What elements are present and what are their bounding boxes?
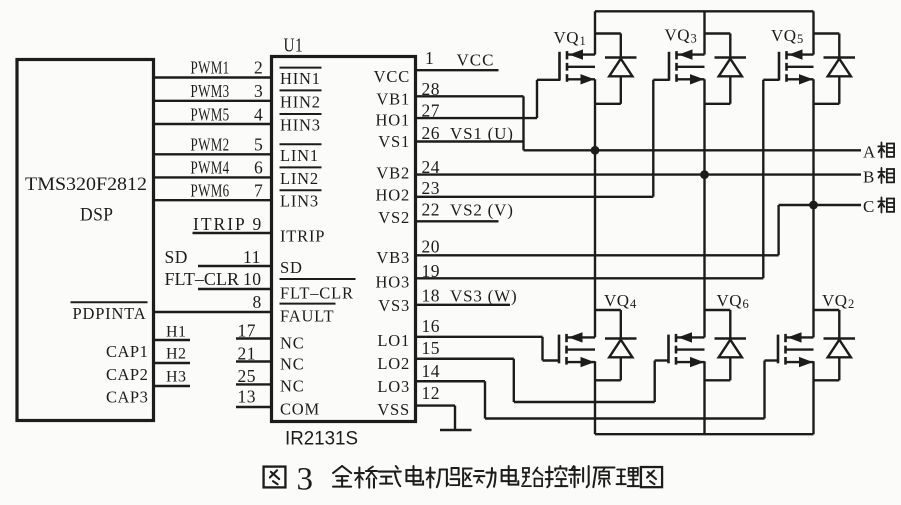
- U1 inside label LIN2: [280, 167, 322, 188]
- wire phase C line: [814, 204, 862, 206]
- svg-text:U1: U1: [284, 35, 304, 57]
- svg-text:SD: SD: [280, 258, 303, 277]
- ground: [440, 429, 472, 432]
- svg-text:25: 25: [238, 366, 257, 386]
- wire pin 10 FLT-CLR: [165, 269, 273, 289]
- label U1: [284, 35, 304, 57]
- wire column C lower source to rail: [812, 361, 814, 434]
- wire pin 21 (H2 to NC): [236, 344, 272, 364]
- svg-text:3: 3: [297, 462, 314, 498]
- transistor VQ5 (high side): [779, 49, 814, 84]
- svg-text:VS2 (V): VS2 (V): [450, 201, 514, 220]
- U1 inside label NC: [280, 377, 305, 396]
- svg-text:10: 10: [243, 269, 262, 289]
- svg-text:VSS: VSS: [377, 400, 410, 419]
- wire pin 27 HO1 to VQ1 gate: [414, 80, 560, 121]
- svg-text:27: 27: [422, 101, 441, 121]
- U1 inside label VB2: [376, 164, 410, 183]
- svg-text:LO2: LO2: [377, 354, 410, 373]
- svg-text:3: 3: [691, 32, 698, 46]
- caption 图3 全桥式电机驱动电路控制原理图: [264, 462, 663, 498]
- label CAP1: [106, 342, 148, 361]
- wire pin 23 HO2 to VQ3 gate: [414, 80, 670, 198]
- transistor VQ2 (low side): [778, 332, 814, 367]
- label VQ6: [717, 291, 750, 311]
- svg-text:VS3: VS3: [378, 296, 410, 315]
- svg-text:FLT–CLR: FLT–CLR: [280, 284, 354, 303]
- svg-text:LO3: LO3: [377, 377, 410, 396]
- wire pin 24 VB2 / phase B line: [414, 157, 861, 177]
- wire column A drain from rail: [594, 11, 596, 54]
- U1 inside label HIN3: [280, 114, 322, 135]
- U1 inside label SD: [280, 258, 303, 277]
- svg-text:H2: H2: [166, 346, 187, 363]
- svg-text:VB3: VB3: [376, 248, 410, 267]
- U1 inside label LO3: [377, 377, 410, 396]
- net label C相: [863, 197, 894, 216]
- transistor VQ4 (low side): [559, 332, 595, 367]
- wire column B mid vertical (source/phase/drain): [703, 79, 705, 337]
- transistor VQ3 (high side): [669, 49, 705, 84]
- wire pin 5 PWM2 (DSP to U1): [152, 135, 272, 155]
- svg-text:VCC: VCC: [374, 67, 410, 86]
- label IR2131S: [285, 429, 358, 450]
- svg-text:18: 18: [422, 286, 441, 306]
- wire pin 25 (H3 to NC): [236, 366, 272, 386]
- wire top supply rail: [595, 10, 814, 12]
- svg-text:24: 24: [422, 157, 441, 177]
- label VQ1: [554, 28, 587, 48]
- U1 inside label VB1: [376, 90, 410, 109]
- svg-text:PDPINTA: PDPINTA: [73, 304, 147, 323]
- label VQ4: [604, 291, 637, 311]
- svg-text:HO2: HO2: [376, 186, 410, 205]
- diode DVQ2 (body diode): [814, 310, 856, 380]
- U1 inside label HO1: [376, 111, 410, 130]
- svg-text:6: 6: [743, 297, 750, 311]
- wire pin 22 VS2: [414, 200, 514, 222]
- diode DVQ1 (body diode): [595, 34, 637, 104]
- wire pin 15 LO2 to VQ6 gate: [414, 338, 669, 402]
- stub H1: [152, 324, 190, 341]
- label VQ3: [665, 26, 698, 46]
- svg-text:FLT–CLR: FLT–CLR: [165, 269, 240, 289]
- svg-text:LO1: LO1: [377, 331, 410, 350]
- net label PDPINTA (overline): [71, 302, 148, 323]
- svg-text:HIN3: HIN3: [280, 116, 321, 135]
- svg-text:15: 15: [422, 338, 441, 358]
- U1 inside label HO2: [376, 186, 410, 205]
- label CAP3: [106, 388, 148, 407]
- node phase A junction: [591, 146, 600, 155]
- U1 inside label VS1: [378, 132, 410, 151]
- svg-text:VQ: VQ: [771, 26, 797, 45]
- wire pin 14 LO3 to VQ2 gate: [414, 361, 779, 419]
- svg-text:H1: H1: [166, 324, 187, 341]
- U1 inside label LO1: [377, 331, 410, 350]
- svg-text:1: 1: [580, 34, 587, 48]
- wire column C drain from rail: [812, 11, 814, 54]
- U1 inside label NC: [280, 334, 305, 353]
- svg-text:HO3: HO3: [376, 273, 410, 292]
- wire pin 26 VS1: [414, 123, 524, 143]
- U1 inside label VS2: [378, 208, 410, 227]
- svg-text:CAP3: CAP3: [106, 388, 148, 407]
- transistor VQ6 (low side): [669, 332, 705, 367]
- node phase B junction: [700, 170, 709, 179]
- svg-text:ITRIP: ITRIP: [280, 227, 325, 246]
- svg-text:22: 22: [422, 200, 441, 220]
- svg-text:4: 4: [254, 104, 263, 124]
- wire pin 12 VSS to ground: [414, 383, 455, 430]
- svg-text:ITRIP: ITRIP: [193, 214, 247, 234]
- svg-text:VB1: VB1: [376, 90, 410, 109]
- U1 inside label LIN3: [280, 190, 322, 211]
- wire column A lower source to rail: [594, 361, 596, 434]
- U1 inside label LIN1: [280, 144, 322, 165]
- svg-text:HO1: HO1: [376, 111, 410, 130]
- svg-text:6: 6: [254, 158, 263, 178]
- wire pin 20 VB3 to phase C: [414, 205, 814, 257]
- U1 inside label ITRIP: [280, 227, 325, 246]
- svg-text:16: 16: [422, 316, 441, 336]
- stub H2: [152, 346, 190, 364]
- U1 inside label HIN2: [280, 90, 322, 111]
- U1 inside label HO3: [376, 273, 410, 292]
- svg-text:7: 7: [254, 181, 263, 201]
- svg-text:PWM1: PWM1: [191, 58, 230, 78]
- U1 inside label COM: [280, 400, 320, 419]
- node phase C junction: [809, 201, 818, 210]
- svg-text:PWM4: PWM4: [191, 158, 230, 178]
- svg-text:5: 5: [254, 135, 263, 155]
- svg-text:14: 14: [422, 361, 441, 381]
- U1 inside label VCC: [374, 67, 410, 86]
- U1 inside label VSS: [377, 400, 410, 419]
- svg-text:VS2: VS2: [378, 208, 410, 227]
- wire column A mid vertical (source/phase/drain): [594, 79, 596, 337]
- wire bottom source rail: [595, 433, 814, 435]
- diode DVQ5 (body diode): [814, 34, 856, 104]
- transistor VQ1 (high side): [560, 49, 596, 84]
- svg-text:2: 2: [254, 58, 263, 78]
- svg-text:CAP1: CAP1: [106, 342, 148, 361]
- svg-text:B: B: [863, 168, 875, 187]
- diode DVQ6 (body diode): [705, 310, 747, 380]
- U1 inside label VS3: [378, 296, 410, 315]
- label VQ5: [771, 26, 804, 46]
- label VQ2: [822, 291, 855, 311]
- U1 inside label NC: [280, 355, 305, 374]
- svg-text:HIN2: HIN2: [280, 92, 321, 111]
- wire pin 18 VS3: [414, 286, 517, 306]
- label CAP2: [106, 365, 148, 384]
- svg-text:28: 28: [422, 79, 441, 99]
- DSP block TMS320F2812: [17, 60, 154, 421]
- wire pin 9 ITRIP: [193, 214, 273, 234]
- U1 inside label VB3: [376, 248, 410, 267]
- net label VCC: [457, 51, 495, 70]
- svg-text:LIN1: LIN1: [280, 146, 319, 165]
- svg-text:PWM5: PWM5: [191, 104, 230, 124]
- svg-text:NC: NC: [280, 334, 305, 353]
- wire pin 13 (COM): [236, 387, 272, 408]
- svg-text:1: 1: [425, 48, 434, 68]
- wire pin 17 (H1 to NC): [236, 321, 272, 341]
- svg-text:13: 13: [238, 387, 257, 407]
- wire pin 3 PWM3 (DSP to U1): [152, 81, 272, 101]
- U1 inside label FLT-CLR: [280, 279, 356, 303]
- stub H3: [152, 369, 190, 387]
- svg-text:VCC: VCC: [457, 51, 495, 70]
- svg-text:DSP: DSP: [80, 205, 114, 226]
- svg-text:H3: H3: [166, 369, 187, 386]
- svg-text:NC: NC: [280, 355, 305, 374]
- svg-text:A: A: [863, 143, 876, 162]
- svg-text:9: 9: [253, 214, 262, 234]
- wire pin 11 SD: [165, 247, 273, 267]
- wire pin 16 LO1 to VQ4 gate: [414, 316, 560, 361]
- svg-text:IR2131S: IR2131S: [285, 429, 358, 450]
- diode DVQ4 (body diode): [595, 310, 637, 380]
- svg-text:5: 5: [797, 32, 804, 46]
- svg-text:2: 2: [848, 297, 855, 311]
- U1 inside label LO2: [377, 354, 410, 373]
- svg-text:LIN3: LIN3: [280, 192, 319, 211]
- svg-text:SD: SD: [165, 247, 188, 267]
- svg-text:VS3 (W): VS3 (W): [450, 287, 517, 306]
- wire pin 7 PWM6 (DSP to U1): [152, 181, 272, 201]
- svg-text:20: 20: [422, 237, 441, 257]
- wire pin 19 HO3 to VQ5 gate: [414, 80, 779, 281]
- wire pin 2 PWM1 (DSP to U1): [152, 58, 272, 78]
- svg-text:FAULT: FAULT: [280, 307, 334, 326]
- svg-text:12: 12: [422, 383, 441, 403]
- svg-text:19: 19: [422, 261, 441, 281]
- svg-text:TMS320F2812: TMS320F2812: [25, 174, 147, 195]
- wire pin 8 PDPINTA to FAULT: [152, 292, 272, 312]
- svg-text:3: 3: [254, 81, 263, 101]
- svg-text:VQ: VQ: [665, 26, 691, 45]
- svg-text:C: C: [863, 197, 875, 216]
- svg-text:COM: COM: [280, 400, 320, 419]
- wire pin 1 VCC: [414, 48, 499, 70]
- U1 inside label FAULT: [280, 304, 336, 326]
- svg-text:PWM6: PWM6: [191, 181, 230, 201]
- wire column C mid vertical (source/phase/drain): [812, 79, 814, 337]
- IC U1 IR2131S body: [272, 57, 416, 422]
- net label A相: [863, 142, 894, 161]
- svg-text:23: 23: [422, 178, 441, 198]
- wire pin 28 VB1: [414, 79, 524, 150]
- svg-text:11: 11: [243, 247, 261, 267]
- wire column B lower source to rail: [703, 361, 705, 434]
- svg-text:17: 17: [238, 321, 257, 341]
- net label B相: [863, 168, 894, 187]
- svg-text:PWM3: PWM3: [191, 81, 230, 101]
- svg-text:VS1 (U): VS1 (U): [450, 124, 514, 143]
- svg-text:PWM2: PWM2: [191, 135, 230, 155]
- wire phase A line: [524, 149, 862, 151]
- wire column B drain from rail: [703, 11, 705, 54]
- svg-text:VB2: VB2: [376, 164, 410, 183]
- svg-text:26: 26: [422, 123, 441, 143]
- svg-text:VQ: VQ: [822, 291, 848, 310]
- svg-text:8: 8: [253, 292, 262, 312]
- svg-text:VQ: VQ: [554, 28, 580, 47]
- U1 inside label HIN1: [280, 68, 322, 88]
- wire pin 6 PWM4 (DSP to U1): [152, 158, 272, 178]
- svg-text:VS1: VS1: [378, 132, 410, 151]
- svg-text:21: 21: [238, 344, 257, 364]
- svg-text:4: 4: [630, 297, 637, 311]
- svg-text:LIN2: LIN2: [280, 169, 319, 188]
- diode DVQ3 (body diode): [705, 34, 747, 104]
- svg-text:VQ: VQ: [717, 291, 743, 310]
- svg-text:CAP2: CAP2: [106, 365, 148, 384]
- svg-text:VQ: VQ: [604, 291, 630, 310]
- wire pin 4 PWM5 (DSP to U1): [152, 104, 272, 124]
- svg-text:NC: NC: [280, 377, 305, 396]
- svg-text:HIN1: HIN1: [280, 69, 321, 88]
